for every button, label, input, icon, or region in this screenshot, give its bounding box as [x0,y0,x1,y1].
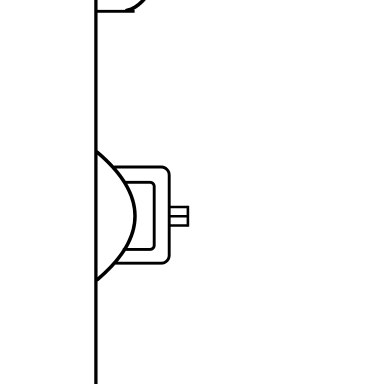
terminal tab right edge [187,206,190,227]
wire vertical panel line [94,0,97,384]
wire top horizontal line [95,10,135,13]
terminal tab top edge [169,206,188,209]
wire top corner curve [127,0,147,10]
terminal tab bottom edge [169,224,188,227]
outer housing rounded rectangle [115,167,169,263]
terminal tab middle line [169,215,187,218]
inner rounded rectangle [124,182,154,249]
bell arc of component [97,152,135,280]
